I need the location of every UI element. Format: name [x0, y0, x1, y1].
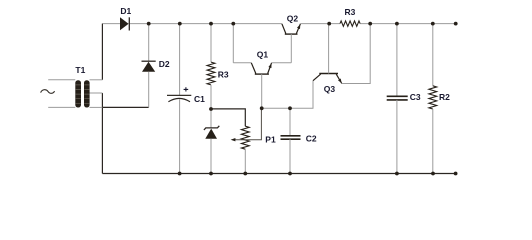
- junction: C2 top / Q3 collector node: [288, 106, 292, 110]
- potentiometer P1: [231, 108, 276, 173]
- junction: C3 at ground rail: [395, 172, 399, 176]
- svg-text:D2: D2: [159, 59, 170, 69]
- wire: Q1 base node to C2 / Q3 collector node: [262, 107, 290, 109]
- output terminal -: [454, 172, 458, 176]
- wire: top unregulated rail, D1 anode side: [102, 23, 120, 25]
- zener diode (voltage reference): [204, 109, 219, 174]
- wire: output rail, R3 to output terminal: [360, 23, 456, 25]
- transistor Q1 (driver): [233, 24, 291, 109]
- wire: secondary bottom terminal stub: [90, 106, 103, 108]
- wire: secondary top terminal stub: [90, 79, 103, 81]
- svg-text:Q1: Q1: [257, 50, 269, 60]
- svg-text:R3: R3: [345, 7, 356, 17]
- svg-text:C2: C2: [306, 134, 317, 144]
- svg-text:C3: C3: [410, 92, 421, 102]
- wire: secondary bottom terminal to D2 anode: [102, 106, 148, 108]
- junction: Q1 collector at top rail: [231, 22, 235, 26]
- junction: R2 at ground rail: [431, 172, 435, 176]
- wire: top unregulated rail, D1 cathode to Q2 collector: [130, 23, 282, 25]
- junction: Q3 base / R3 sense left at output rail: [327, 22, 331, 26]
- svg-text:T1: T1: [75, 65, 85, 75]
- junction: Q3 emitter / R3 sense right at output rail: [368, 22, 372, 26]
- junction: C1 at ground rail: [178, 172, 182, 176]
- junction: zener anode at ground rail: [209, 172, 213, 176]
- junction: C3 at output rail: [395, 22, 399, 26]
- wire: primary top lead: [48, 79, 75, 81]
- wire: primary bottom lead: [48, 106, 75, 108]
- diode D2: [142, 24, 170, 108]
- svg-text:Q2: Q2: [287, 13, 299, 23]
- svg-text:R2: R2: [439, 92, 450, 102]
- resistor R3 (left, zener feed): [207, 24, 229, 109]
- wire: secondary top terminal riser to top rail: [101, 24, 103, 80]
- wire: center tap down to ground rail: [101, 93, 103, 174]
- diode D1: [120, 6, 132, 31]
- wire: zener node to P1 top: [211, 109, 245, 126]
- transistor Q2 (series pass): [282, 13, 301, 63]
- resistor R3 (top, current sense): [340, 7, 360, 27]
- junction: Q1 base / P1 wiper node: [260, 106, 264, 110]
- wire: ground bottom rail: [102, 173, 455, 175]
- junction: R2 at output rail: [431, 22, 435, 26]
- svg-text:C1: C1: [194, 94, 205, 104]
- AC source symbol (~): [41, 90, 55, 94]
- svg-text:D1: D1: [120, 6, 131, 16]
- junction: C1 at top rail: [178, 22, 182, 26]
- svg-text:R3: R3: [218, 69, 229, 79]
- wire: secondary center tap stub: [90, 92, 103, 94]
- junction: C2 at ground rail: [288, 172, 292, 176]
- resistor R2 (bleeder): [429, 24, 450, 174]
- capacitor C3 (output cap): [387, 24, 421, 174]
- junction: zener cathode / R3 node: [209, 107, 213, 111]
- capacitor C1 (polarized filter cap): [167, 24, 205, 174]
- junction: D2 cathode at top rail: [147, 22, 151, 26]
- transistor Q3 (current limiter): [290, 24, 370, 109]
- svg-text:Q3: Q3: [324, 84, 336, 94]
- junction: R3 left at top rail: [209, 22, 213, 26]
- output terminal +: [454, 22, 458, 26]
- wire: output rail, Q2 emitter to R3 sense resistor: [300, 23, 340, 25]
- svg-text:P1: P1: [265, 134, 276, 144]
- capacitor C2: [281, 108, 317, 173]
- junction: P1 bottom at ground rail: [243, 172, 247, 176]
- transformer T1: [75, 65, 89, 108]
